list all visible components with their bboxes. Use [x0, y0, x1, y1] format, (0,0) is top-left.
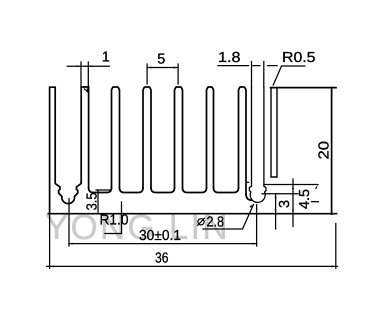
- svg-text:20: 20: [316, 141, 332, 160]
- fin F3: [112, 87, 120, 188]
- dim 3 arrows: [275, 194, 277, 214]
- dim 3 line: [275, 194, 277, 229]
- ext line A arrow: [315, 185, 318, 190]
- svg-text:4.5: 4.5: [297, 189, 313, 209]
- dim 5 line: [147, 67, 178, 69]
- groove right of F7: [246, 194, 251, 200]
- root F3-F4: [120, 188, 144, 193]
- fin F6: [207, 87, 214, 188]
- dim 4.5 line: [292, 179, 294, 227]
- fin F2: [81, 87, 88, 188]
- svg-text:R0.5: R0.5: [282, 50, 316, 66]
- dim 1 extension lines: [81, 62, 88, 87]
- dim 30±0.1 line: [69, 243, 257, 245]
- fin F2 root fillet: [89, 188, 112, 193]
- dim 36 arrows: [50, 265, 336, 267]
- right edge ext for 36: [335, 224, 337, 269]
- root F4-F5: [151, 188, 175, 193]
- svg-text:1.8: 1.8: [218, 50, 241, 66]
- svg-text:5: 5: [157, 51, 165, 67]
- root tick left of channel wall: [246, 181, 249, 183]
- ext line B hole center right: [262, 193, 298, 195]
- svg-text:1: 1: [102, 50, 110, 66]
- label R0.5: [273, 66, 305, 85]
- dim 5 extension lines: [147, 64, 178, 84]
- slot wall extension lines 1.8: [252, 62, 264, 88]
- screw channel left: [55, 182, 81, 204]
- svg-text:36: 36: [155, 251, 169, 267]
- dim 5 arrows: [147, 67, 178, 69]
- dim 3.5 tick: [96, 189, 111, 191]
- left edge ext for 36: [49, 214, 51, 269]
- dim 4.5 arrows: [292, 185, 294, 214]
- dim 1 arrows: [77, 65, 93, 67]
- root F6-F7: [214, 188, 239, 193]
- svg-text:R1.0: R1.0: [100, 212, 129, 228]
- fin F7: [239, 87, 247, 194]
- ext line A fin root plane right: [264, 184, 318, 186]
- dim 3.5 line: [97, 190, 99, 212]
- hole centerline right / dim 30 ext: [256, 205, 258, 247]
- block top edge: [271, 87, 337, 89]
- base bottom: [48, 213, 336, 215]
- svg-text:3: 3: [277, 200, 293, 208]
- fin F1 left wall: [50, 87, 56, 213]
- dim 30 arrows: [69, 243, 257, 245]
- hole centerline left / dim 30 ext: [68, 199, 70, 247]
- dim 36 line: [47, 265, 338, 267]
- fin F2 tip step mark: [85, 89, 88, 92]
- label ⌀2.8: [203, 205, 254, 230]
- dim 1.8 line with text: [218, 65, 277, 67]
- screw channel right wall left: [249, 87, 266, 202]
- dim 1 line: [67, 65, 109, 67]
- label R1.0: [105, 202, 122, 234]
- svg-text:2.8: 2.8: [207, 214, 225, 230]
- root F5-F6: [183, 188, 207, 193]
- block right edge / 20 dim line: [331, 88, 333, 215]
- block slot: [271, 88, 277, 177]
- fin F4: [143, 87, 151, 188]
- dim 4.5 underline: [312, 201, 319, 203]
- svg-text:3.5: 3.5: [84, 192, 100, 210]
- svg-text:30±0.1: 30±0.1: [139, 228, 181, 244]
- fin F5: [175, 87, 183, 188]
